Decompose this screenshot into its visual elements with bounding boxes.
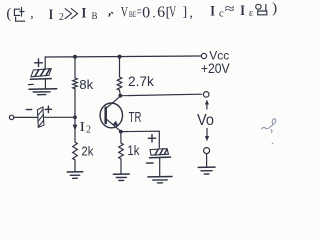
wire: collector node to output terminal <box>120 94 201 96</box>
pen squiggle mark <box>262 119 276 144</box>
voltage arrow up at Vo <box>206 103 208 109</box>
svg-text:,: , <box>190 5 193 20</box>
minus sign of capacitor C2 <box>26 109 31 111</box>
ground G5 <box>198 166 215 168</box>
ground G1 <box>29 88 57 90</box>
wire: rail to 8k <box>74 57 76 78</box>
svg-text:]: ] <box>183 5 188 20</box>
svg-text:.: . <box>152 5 155 20</box>
svg-text:I: I <box>240 3 245 19</box>
condition text: hangul Im <box>256 4 267 15</box>
condition text: much-greater-than <box>65 9 78 19</box>
wire: Vcc top rail <box>45 56 201 57</box>
voltage arrow down at Vo <box>206 129 208 137</box>
wire: input terminal to capacitor C2 <box>14 116 38 118</box>
svg-text:TR: TR <box>129 109 142 126</box>
svg-text:1k: 1k <box>127 143 140 158</box>
wire: 2k to ground <box>74 160 76 172</box>
condition text: semicolon marks <box>109 12 113 16</box>
svg-text:B: B <box>92 11 98 21</box>
svg-text:6: 6 <box>157 4 165 21</box>
svg-text:=: = <box>137 4 142 19</box>
svg-text:2.7k: 2.7k <box>128 74 154 89</box>
transistor TR collector lead <box>106 96 121 108</box>
svg-text:≈: ≈ <box>225 1 235 16</box>
ground G4 <box>148 176 172 178</box>
svg-text:,: , <box>30 6 33 21</box>
node: collector junction <box>118 94 122 98</box>
resistor 8k <box>73 78 78 89</box>
capacitor C1 bottom plate <box>30 78 51 81</box>
current arrow I2 <box>74 119 76 127</box>
wire: capacitor C2 to base node <box>43 116 75 118</box>
svg-text:2k: 2k <box>81 144 94 159</box>
plus sign of capacitor C3 <box>148 135 155 142</box>
terminal output top <box>203 92 209 98</box>
svg-text:BE: BE <box>129 9 136 19</box>
terminal Vcc <box>201 53 206 58</box>
terminal output bottom <box>204 148 210 154</box>
terminal input <box>9 115 13 119</box>
svg-text:+20V: +20V <box>201 60 230 76</box>
capacitor C3 bottom plate <box>150 156 171 159</box>
transistor TR emitter lead <box>106 119 121 132</box>
transistor TR circle <box>100 103 122 128</box>
svg-text:c: c <box>219 9 224 20</box>
svg-text:I: I <box>210 4 215 20</box>
wire: C3 to ground <box>159 158 161 176</box>
minus sign of capacitor C3 <box>147 162 154 164</box>
resistor 2k <box>73 142 78 160</box>
svg-text:I: I <box>80 120 86 135</box>
ground G3 <box>113 173 129 175</box>
svg-text:): ) <box>272 0 277 16</box>
svg-text:2: 2 <box>59 12 64 23</box>
node: rail junction at 2.7k <box>118 55 122 59</box>
svg-text:Vo: Vo <box>197 112 214 130</box>
capacitor C3 hatched plate <box>150 149 169 156</box>
wire: 2.7k to collector node <box>119 90 122 96</box>
wire: 8k to base node <box>74 89 76 118</box>
svg-text:I: I <box>49 7 54 23</box>
svg-text:V: V <box>169 4 176 21</box>
wire: rail to decoupling capacitor <box>44 57 46 69</box>
resistor 2.7k <box>117 77 122 90</box>
plus sign of capacitor C2 <box>45 106 51 112</box>
svg-text:ε: ε <box>249 8 254 19</box>
svg-text:V: V <box>121 4 128 20</box>
wire: C1 to ground <box>44 79 46 89</box>
svg-text:2: 2 <box>86 125 91 136</box>
wire: emitter node to bypass capacitor C3 <box>121 131 160 148</box>
wire: rail to 2.7k <box>119 57 121 77</box>
ground G2 <box>67 171 83 173</box>
resistor 1k <box>119 143 124 159</box>
transistor TR base bar <box>104 108 107 123</box>
wire: emitter node to 1k <box>120 132 122 143</box>
svg-text:0: 0 <box>142 4 150 21</box>
wire: output bottom terminal to ground <box>206 154 208 167</box>
svg-text:I: I <box>82 6 87 22</box>
svg-text:(: ( <box>6 6 11 22</box>
condition text: hangul Dan <box>14 7 24 21</box>
transistor TR emitter arrowhead <box>113 121 119 127</box>
node: emitter junction <box>119 130 123 134</box>
wire: 1k to ground <box>120 159 122 174</box>
wire: base node to 2k <box>74 126 76 142</box>
svg-text:8k: 8k <box>79 77 93 92</box>
capacitor C1 hatched plate <box>31 69 51 77</box>
minus sign of capacitor C1 <box>28 83 33 85</box>
node: rail junction at 8k <box>73 55 77 59</box>
capacitor C2 hatched plate <box>37 107 44 127</box>
node: base junction <box>73 115 77 119</box>
plus sign of capacitor C1 <box>35 59 43 67</box>
